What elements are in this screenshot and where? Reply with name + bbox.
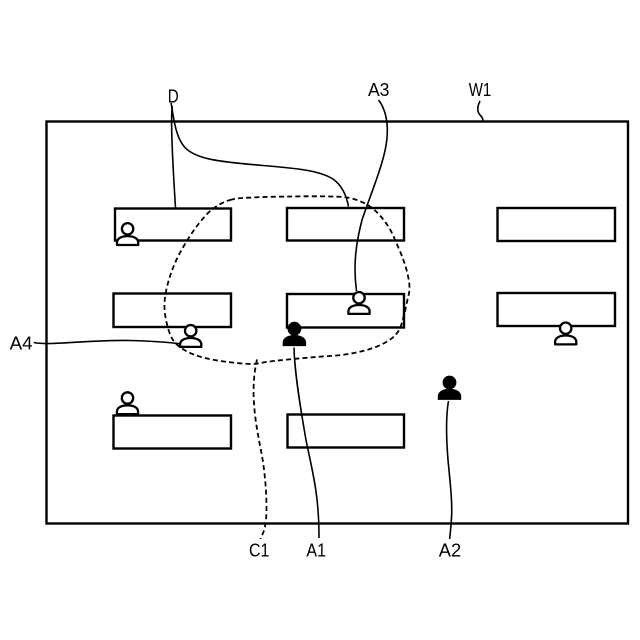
desk D row2 col3 — [498, 293, 616, 326]
person P2 (A3) on desk row2 col2 — [348, 292, 369, 314]
svg-text:D: D — [168, 86, 179, 106]
leader line from D to desk row1 col2 — [171, 103, 348, 207]
desk D row1 col2 — [287, 208, 404, 241]
person P4 (A4) below desk row2 col1 — [180, 325, 201, 347]
desk D row1 col3 — [498, 208, 616, 241]
leader line from A2 to black person — [447, 401, 452, 539]
desk D row3 col1 — [114, 416, 232, 449]
svg-text:A4: A4 — [10, 333, 33, 353]
leader line from A1 to black person — [294, 348, 319, 539]
svg-text:A2: A2 — [439, 541, 461, 561]
dashed cluster region C1 — [164, 196, 409, 364]
svg-text:C1: C1 — [249, 541, 270, 561]
leader line from A4 to person below desk row2 col1 — [34, 340, 179, 343]
black person A2 — [438, 376, 461, 400]
svg-text:A3: A3 — [368, 80, 390, 100]
svg-text:A1: A1 — [306, 541, 326, 561]
workspace W1 boundary rectangle — [47, 122, 629, 524]
leader squiggle from W1 to boundary — [478, 101, 483, 122]
person P1 on desk row1 col1 — [117, 223, 138, 245]
desk D row1 col1 — [115, 209, 231, 241]
leader line from D to desk row1 col1 — [171, 106, 175, 208]
dashed leader line to label C1 — [254, 360, 267, 540]
desk D row2 col2 — [287, 294, 404, 328]
desk D row3 col2 — [288, 415, 405, 448]
leader line from A3 to person on middle desk — [355, 100, 387, 291]
svg-text:W1: W1 — [469, 80, 492, 100]
black person A1 — [283, 322, 306, 346]
person P7 above desk row3 col1 — [117, 392, 138, 414]
desk D row2 col1 — [114, 294, 232, 328]
person P5 below desk row2 col3 — [555, 323, 576, 345]
